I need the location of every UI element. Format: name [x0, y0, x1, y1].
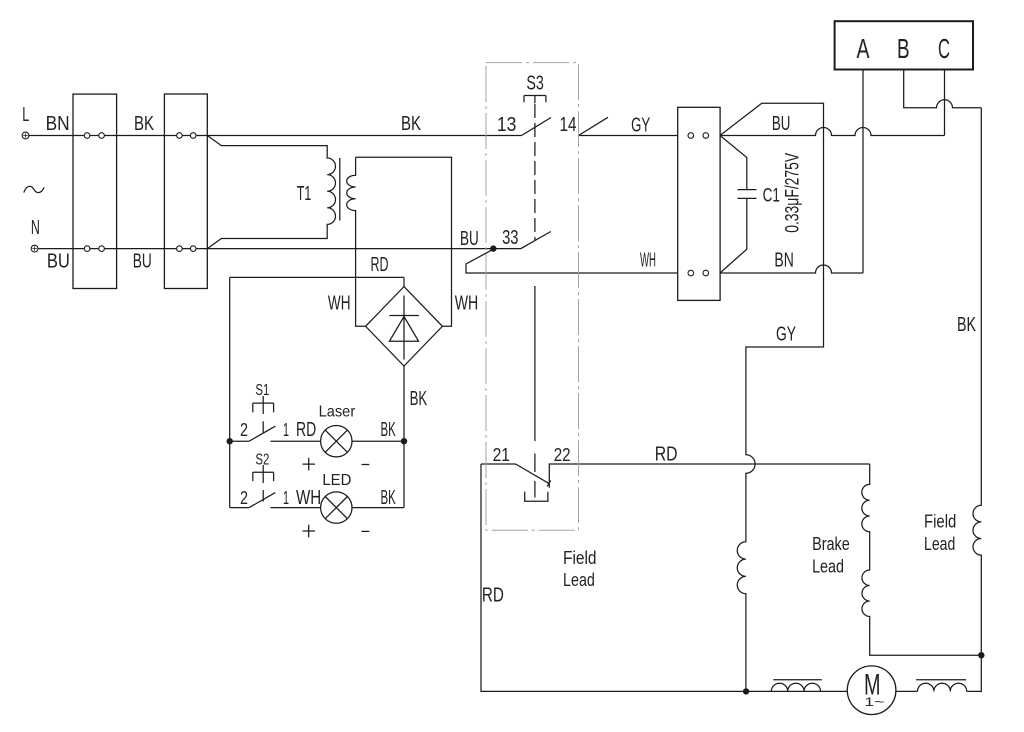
svg-text:Field: Field — [924, 511, 956, 531]
svg-text:BN: BN — [46, 113, 70, 135]
svg-text:S3: S3 — [526, 72, 544, 94]
svg-text:BK: BK — [957, 314, 976, 336]
svg-text:A: A — [857, 33, 870, 64]
svg-text:1~: 1~ — [864, 697, 884, 709]
svg-text:33: 33 — [502, 227, 518, 249]
svg-text:BK: BK — [381, 487, 397, 509]
svg-text:1: 1 — [283, 420, 289, 440]
svg-text:S2: S2 — [255, 452, 269, 469]
svg-text:BU: BU — [133, 251, 152, 273]
svg-text:L: L — [22, 104, 29, 126]
svg-text:GY: GY — [776, 324, 796, 346]
svg-text:C1: C1 — [763, 186, 780, 207]
svg-text:21: 21 — [493, 445, 510, 465]
svg-text:BU: BU — [47, 251, 70, 273]
svg-text:WH: WH — [328, 293, 351, 315]
svg-text:BK: BK — [401, 113, 421, 135]
svg-text:BK: BK — [134, 113, 154, 135]
svg-text:S1: S1 — [255, 382, 269, 399]
svg-text:B: B — [897, 33, 910, 64]
svg-text:N: N — [31, 217, 40, 239]
svg-text:WH: WH — [455, 293, 479, 315]
svg-text:WH: WH — [296, 487, 321, 509]
svg-text:BK: BK — [410, 388, 428, 410]
svg-text:1: 1 — [283, 488, 289, 508]
svg-text:13: 13 — [497, 114, 517, 136]
svg-text:RD: RD — [482, 585, 504, 607]
svg-text:BU: BU — [772, 113, 791, 135]
svg-text:GY: GY — [631, 115, 650, 137]
svg-text:BK: BK — [381, 419, 397, 441]
svg-text:RD: RD — [655, 444, 678, 466]
svg-text:2: 2 — [240, 420, 248, 440]
svg-text:LED: LED — [322, 472, 351, 489]
svg-text:Brake: Brake — [812, 534, 850, 554]
svg-text:WH: WH — [640, 250, 656, 272]
svg-text:Lead: Lead — [924, 534, 955, 554]
svg-text:RD: RD — [371, 254, 389, 276]
svg-text:22: 22 — [554, 445, 571, 465]
svg-text:T1: T1 — [297, 183, 312, 205]
svg-text:Field: Field — [563, 548, 597, 568]
svg-text:BU: BU — [460, 228, 479, 250]
svg-text:2: 2 — [240, 488, 248, 508]
svg-text:Lead: Lead — [563, 570, 595, 590]
svg-text:14: 14 — [560, 114, 577, 136]
svg-text:0.33μF/275V: 0.33μF/275V — [783, 153, 804, 233]
svg-text:RD: RD — [296, 419, 316, 441]
svg-text:BN: BN — [774, 250, 793, 272]
svg-text:C: C — [938, 33, 950, 64]
svg-text:Lead: Lead — [812, 556, 844, 576]
svg-text:Laser: Laser — [319, 404, 356, 421]
